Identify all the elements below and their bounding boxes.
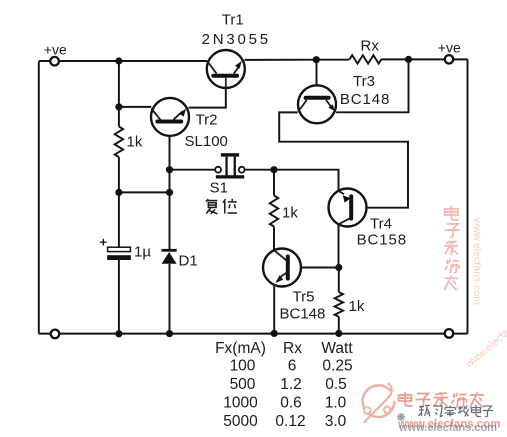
wire 1k right top (338, 268, 340, 293)
wire left rail (38, 61, 40, 334)
wire Tr5 base to junction (290, 267, 339, 269)
svg-text:Tr5: Tr5 (293, 289, 315, 306)
svg-text:Tr1: Tr1 (222, 12, 244, 29)
wire D1 branch lower (169, 264, 171, 334)
svg-text:www.elecfans.com: www.elecfans.com (462, 305, 507, 371)
diode D1 (162, 249, 177, 264)
wire Tr3 emitter to Rx right junction (336, 59, 408, 112)
svg-text:0.6: 0.6 (280, 395, 302, 412)
transistor Tr3 BC148 (298, 85, 336, 123)
resistor Rx (350, 55, 382, 63)
terminal +ve top right (445, 55, 453, 63)
svg-text:1k: 1k (282, 205, 298, 222)
wire Tr3 collector to Tr4 base (279, 112, 408, 207)
svg-text:BC158: BC158 (357, 232, 407, 249)
svg-text:500: 500 (230, 376, 256, 393)
svg-text:6: 6 (288, 358, 297, 375)
svg-text:+ve: +ve (438, 40, 461, 56)
svg-text:+ve: +ve (44, 42, 67, 58)
watermark dark text 张飞实战电子 overlay (419, 405, 494, 417)
wire 1k mid bottom to Tr5 collector (273, 227, 275, 251)
watermark vertical red text right middle (444, 206, 460, 290)
svg-text:0.12: 0.12 (275, 413, 305, 430)
wire top rail right (Tr1 emitter to +ve right) (245, 58, 468, 61)
svg-text:1k: 1k (349, 298, 365, 315)
svg-text:www.elecfans.com: www.elecfans.com (471, 217, 483, 305)
terminal +ve top left (50, 57, 59, 66)
wire top rail left (to Tr1 collector) (39, 60, 207, 62)
svg-text:2N3055: 2N3055 (202, 31, 271, 48)
svg-text:0.5: 0.5 (325, 376, 347, 393)
svg-text:Tr4: Tr4 (370, 216, 392, 233)
svg-text:1µ: 1µ (134, 244, 151, 261)
transistor Tr1 2N3055 (207, 50, 245, 88)
svg-text:BC148: BC148 (340, 91, 390, 108)
wire cross link 1k/cap to D1 line (119, 191, 170, 193)
wire Tr2 emitter to Tr1 base (189, 78, 226, 108)
svg-text:S1: S1 (210, 179, 228, 196)
svg-text:Tr3: Tr3 (353, 73, 375, 90)
watermark logo circle (elecfans) (363, 383, 395, 423)
watermark red text 电子发烧友 bottom (399, 392, 485, 408)
svg-text:+: + (100, 235, 108, 250)
label 复位 (reset) drawn strokes (206, 199, 237, 214)
svg-text:D1: D1 (179, 253, 198, 270)
node junction dots (115, 56, 412, 338)
wire Tr2 base down (169, 122, 171, 170)
svg-text:1k: 1k (127, 134, 143, 151)
resistor R 1k left (115, 127, 123, 158)
wire left branch x=119 top (118, 61, 120, 127)
svg-text:1000: 1000 (223, 395, 258, 412)
transistor Tr2 SL100 (151, 98, 189, 136)
transistor Tr5 BC148 (263, 249, 301, 287)
svg-text:Rx: Rx (361, 38, 380, 55)
watermark dark small logo mark (397, 413, 405, 421)
wire D1 branch upper (169, 170, 171, 249)
svg-text:3.0: 3.0 (325, 413, 347, 430)
svg-text:1.2: 1.2 (280, 376, 302, 393)
terminal bottom left (51, 330, 60, 339)
wire Tr3 base up (316, 60, 318, 96)
capacitor C1 1u (107, 247, 131, 260)
wire left branch below capacitor (118, 260, 120, 334)
wire 1k right bottom (338, 317, 340, 334)
svg-text:www.elecfans.com: www.elecfans.com (398, 422, 497, 434)
svg-text:0.25: 0.25 (322, 358, 352, 375)
svg-text:100: 100 (230, 358, 256, 375)
svg-text:1.0: 1.0 (325, 395, 347, 412)
svg-text:Tr2: Tr2 (196, 112, 218, 129)
wire bottom rail (39, 333, 468, 335)
wire 1k mid top (273, 170, 275, 196)
resistor R 1k right (335, 292, 343, 317)
svg-text:Rx: Rx (283, 340, 302, 357)
wire Tr4 collector down (338, 224, 340, 268)
table of values (215, 340, 353, 430)
transistor Tr4 BC158 (329, 189, 367, 227)
wire S1 right contact to Tr4 emitter (244, 170, 338, 192)
wire Tr5 emitter down (273, 285, 275, 334)
svg-text:Watt: Watt (321, 340, 353, 357)
wire left branch below resistor (118, 157, 120, 247)
resistor R 1k middle (270, 196, 278, 227)
switch S1 (push button) (215, 153, 244, 178)
svg-text:Fx(mA): Fx(mA) (215, 340, 266, 357)
svg-text:SL100: SL100 (185, 133, 228, 150)
svg-text:BC148: BC148 (280, 306, 326, 323)
wire Tr2 collector (119, 106, 151, 108)
terminal bottom right (445, 329, 454, 338)
wire Tr2 base to S1 left contact (170, 169, 216, 171)
svg-text:5000: 5000 (223, 413, 258, 430)
wire right rail (467, 59, 469, 333)
